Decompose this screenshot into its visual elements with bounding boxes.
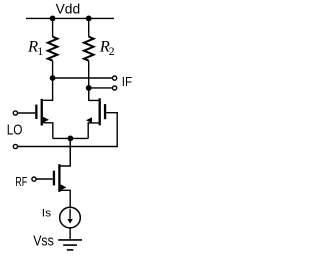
Vdd rail wire: [26, 17, 114, 19]
ground bar 3: [67, 249, 74, 251]
svg-text:Vss: Vss: [33, 234, 54, 250]
node: tail junction: [68, 136, 74, 142]
terminal IF-: [113, 86, 117, 90]
node: Vdd-R1 junction: [50, 16, 56, 22]
current source Is circle: [60, 207, 81, 228]
terminal LO+: [13, 111, 17, 115]
svg-text:IF: IF: [122, 74, 132, 89]
Is arrow: [69, 209, 71, 221]
wire LO+ gate lead: [18, 112, 35, 114]
M3 source arrow: [61, 184, 67, 190]
node: R1 drain IF+ junction: [50, 75, 56, 81]
resistor R1: [48, 18, 58, 78]
wire tail down to M3 drain: [69, 138, 71, 166]
wire common source rail: [53, 137, 88, 139]
M2 source lead: [88, 123, 98, 138]
ground bar 2: [63, 244, 77, 246]
transistor M2 gate bar: [104, 104, 106, 119]
M3 drain lead: [61, 138, 71, 166]
transistor M3 gate bar: [53, 171, 55, 186]
node: Vdd-R2 junction: [86, 16, 92, 22]
node: R2 drain IF- junction: [86, 85, 92, 91]
M3 source lead: [61, 190, 71, 207]
M1 source arrow: [43, 117, 49, 123]
transistor M1 gate bar: [35, 105, 37, 119]
svg-text:1: 1: [37, 44, 43, 58]
terminal LO-: [13, 144, 17, 148]
svg-text:RF: RF: [15, 174, 27, 189]
svg-text:LO: LO: [7, 121, 23, 138]
resistor R2: [84, 18, 94, 100]
svg-text:2: 2: [109, 44, 115, 58]
wire IF+ line: [53, 77, 113, 79]
M2 source arrow: [86, 117, 92, 123]
M2 drain lead: [89, 88, 99, 101]
transistor M2 channel bar: [99, 98, 101, 125]
terminal RF: [32, 177, 36, 181]
wire LO- gate lead: [18, 113, 117, 147]
ground bar 1: [58, 239, 82, 241]
terminal IF+: [113, 76, 117, 80]
M1 drain lead: [43, 78, 53, 100]
svg-text:Vdd: Vdd: [56, 0, 81, 16]
transistor M3 channel bar: [58, 164, 60, 192]
transistor M1 channel bar: [41, 99, 43, 126]
wire RF gate lead: [36, 178, 52, 180]
wire IF- line: [89, 87, 112, 89]
M1 source lead: [43, 123, 53, 139]
svg-text:Is: Is: [42, 207, 52, 219]
wire current source to ground: [69, 228, 71, 239]
